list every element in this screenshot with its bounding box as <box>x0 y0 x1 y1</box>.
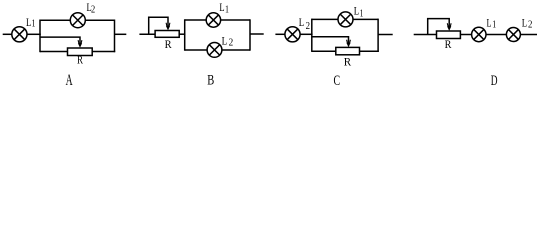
svg-text:B: B <box>207 73 214 89</box>
wire A entry <box>3 33 12 35</box>
wire B top branch <box>185 19 250 21</box>
svg-text:L: L <box>299 17 304 29</box>
wire D exit <box>520 34 537 36</box>
wire B bottom branch <box>185 49 250 51</box>
resistor R (circuit D) <box>437 31 461 39</box>
slider arrow (circuit C) <box>346 40 350 48</box>
wire C top branch <box>312 18 378 20</box>
svg-text:R: R <box>165 37 172 51</box>
wire C bottom right <box>359 50 379 52</box>
lamp L2 (circuit B) <box>207 43 222 58</box>
wire A top branch <box>40 19 115 21</box>
svg-text:1: 1 <box>492 20 496 31</box>
slider lead (circuit B) <box>149 17 168 34</box>
svg-text:2: 2 <box>91 4 95 15</box>
circuit C <box>275 12 392 55</box>
wire D lamp1 to lamp2 <box>486 34 507 36</box>
wire A bottom right <box>92 51 115 53</box>
wire B entry <box>139 33 155 35</box>
lamp L1 (circuit C) <box>338 12 353 27</box>
wire D entry <box>414 34 437 36</box>
lamp L1 (circuit D) <box>472 27 486 41</box>
wire B rect to junction <box>179 33 185 35</box>
wire A middle slider lead <box>40 37 80 43</box>
lamp L2 (circuit C) <box>285 27 300 42</box>
circuit A <box>3 13 127 56</box>
svg-text:1: 1 <box>360 8 364 19</box>
circuit B <box>139 13 263 58</box>
slider arrow (circuit A) <box>78 40 82 48</box>
slider arrow (circuit B) <box>166 23 170 31</box>
slider arrow (circuit D) <box>447 23 451 31</box>
wire C exit <box>378 34 393 36</box>
node A right junction <box>114 20 116 53</box>
svg-text:L: L <box>522 17 527 29</box>
wire B exit <box>250 33 264 35</box>
lamp L2 (circuit D) <box>506 28 520 42</box>
wire C lamp to junction <box>300 33 313 35</box>
lamp L1 (circuit A) <box>12 27 27 42</box>
svg-text:R: R <box>344 54 351 68</box>
resistor R (circuit C) <box>336 47 360 54</box>
lamp L2 (circuit A) <box>70 13 85 28</box>
circuit D <box>414 19 537 42</box>
wire A exit <box>115 33 127 35</box>
node B right junction <box>249 19 251 50</box>
node A left junction <box>39 20 41 53</box>
svg-text:C: C <box>334 73 341 89</box>
svg-text:2: 2 <box>306 21 310 32</box>
slider lead (circuit D) <box>428 19 450 35</box>
svg-text:L: L <box>26 17 31 29</box>
wire C bottom left <box>312 50 337 52</box>
node B left junction <box>184 19 186 50</box>
lamp L1 (circuit B) <box>206 13 220 27</box>
svg-text:A: A <box>66 72 73 89</box>
svg-text:L: L <box>222 35 228 47</box>
wire C middle slider lead <box>312 37 349 43</box>
wire A lamp1 to junction <box>28 33 41 35</box>
wire D rect to lamp1 <box>460 34 471 36</box>
wire A bottom left <box>40 51 68 53</box>
resistor R (circuit B) <box>155 31 179 38</box>
svg-text:L: L <box>487 17 492 29</box>
svg-text:D: D <box>491 73 498 89</box>
svg-text:2: 2 <box>229 38 234 49</box>
svg-text:1: 1 <box>32 19 36 30</box>
svg-text:L: L <box>219 2 224 14</box>
wire C entry <box>275 33 285 35</box>
svg-text:R: R <box>77 54 83 66</box>
svg-text:R: R <box>445 39 452 51</box>
node C right junction <box>377 19 379 52</box>
svg-text:L: L <box>354 6 359 18</box>
node C left junction <box>311 19 313 52</box>
svg-text:2: 2 <box>528 20 532 31</box>
resistor R (circuit A) <box>68 48 93 56</box>
svg-text:1: 1 <box>225 4 229 15</box>
